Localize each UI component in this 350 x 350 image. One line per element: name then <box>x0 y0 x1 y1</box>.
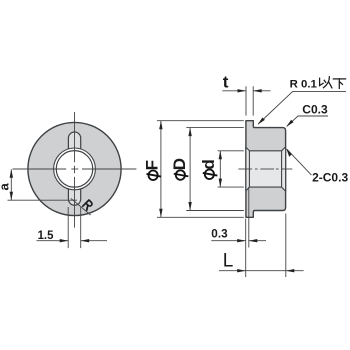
extension lines for t <box>246 86 253 115</box>
svg-text:2-C0.3: 2-C0.3 <box>312 171 348 185</box>
outer circle (left view, flange OD) <box>28 122 121 215</box>
label R rotated <box>83 200 93 210</box>
dimension L line <box>219 270 304 272</box>
bore circle (left view) <box>56 151 93 188</box>
extension line phiF bottom <box>157 216 244 218</box>
svg-text:F: F <box>143 160 162 170</box>
arrow t right <box>253 89 262 92</box>
svg-text:D: D <box>170 158 189 170</box>
label phiD <box>174 170 189 180</box>
arrow phiD top <box>188 128 191 137</box>
leader 2-C0.3 <box>287 149 312 175</box>
arrow C0.3 <box>286 120 293 127</box>
dimension phid line <box>219 151 221 187</box>
kanji ika (以下) drawn strokes <box>320 77 346 89</box>
extension lines for 0.3 <box>246 187 249 247</box>
section centerline <box>238 168 292 170</box>
label phid <box>203 170 218 180</box>
extension line for dimension a <box>8 199 78 201</box>
chamfer edge line left <box>248 151 250 187</box>
extension line phiF top <box>157 120 244 122</box>
horizontal centerline (left view) <box>13 168 137 170</box>
dimension 0.3 line right <box>249 240 266 242</box>
arrow phiD bottom <box>188 202 191 211</box>
arrow phiF bottom <box>159 209 162 218</box>
arrow phid bottom <box>219 179 222 188</box>
arrow L right <box>286 269 295 272</box>
dimension t line left <box>222 90 246 92</box>
leader R 0.1 <box>258 91 346 124</box>
dimension t line right <box>253 90 270 92</box>
label phiF <box>147 171 162 181</box>
arrow 1.5 left <box>60 239 68 242</box>
dimension 1.5 line right <box>81 240 107 242</box>
vertical centerline (left view) <box>74 112 76 228</box>
dimension 0.3 line left <box>211 240 245 242</box>
leader C0.3 <box>287 116 328 126</box>
arrow 0.3 left <box>237 239 246 242</box>
arrow phid top <box>219 151 222 160</box>
arrow 0.3 right <box>249 239 257 242</box>
dimension phiF line <box>160 121 162 218</box>
arrow 2-C0.3 <box>286 149 291 157</box>
section: flange and body outline <box>246 121 286 218</box>
svg-text:t: t <box>223 73 229 92</box>
arrow R 0.1 <box>258 118 265 125</box>
svg-text:L: L <box>223 250 234 271</box>
chamfer edge line right <box>281 151 283 187</box>
arrow t left <box>238 89 247 92</box>
extension lines for 1.5 <box>68 207 81 248</box>
svg-text:C0.3: C0.3 <box>302 102 328 116</box>
extension line phiD bottom <box>186 210 244 212</box>
arrow 1.5 right <box>81 239 90 242</box>
extension lines for L <box>246 214 286 278</box>
arrow L left <box>237 269 246 272</box>
extension line phid top <box>218 150 244 152</box>
extension line phid bottom <box>218 186 244 188</box>
bore chamfer circle (left view) <box>54 148 96 190</box>
arrow a top <box>10 169 13 178</box>
slot (left view keyway slot) <box>68 132 80 205</box>
svg-text:1.5: 1.5 <box>38 228 54 242</box>
arrow a bottom <box>10 192 13 201</box>
leader R (left view slot radius) <box>71 198 91 215</box>
dimension 1.5 line left <box>37 240 69 242</box>
dimension a line <box>10 169 12 200</box>
dimension phiD line <box>189 128 191 211</box>
section: bore channel with chamfers <box>246 147 286 191</box>
arrow phiF top <box>159 121 162 130</box>
svg-text:R 0.1: R 0.1 <box>290 79 318 91</box>
svg-text:0.3: 0.3 <box>211 227 228 241</box>
extension line phiD top <box>186 127 244 129</box>
svg-text:a: a <box>0 183 12 191</box>
svg-text:d: d <box>199 159 218 169</box>
